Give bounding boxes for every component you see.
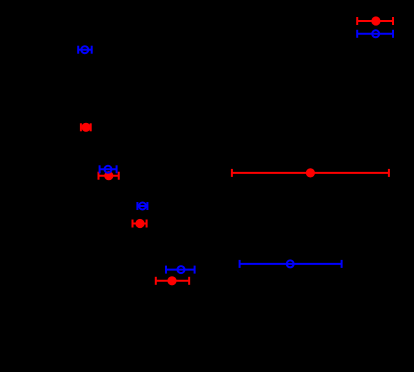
data: blue open circle top-left xyxy=(78,46,92,54)
data: red long errorbar xyxy=(232,169,389,177)
legend red entry xyxy=(357,17,393,25)
data: red filled cluster C xyxy=(156,277,189,285)
data: red filled cluster B xyxy=(133,220,147,228)
data: blue long errorbar xyxy=(240,260,342,268)
data: blue open circle cluster C xyxy=(166,266,195,274)
data: red filled small xyxy=(81,123,91,131)
legend blue entry xyxy=(357,30,393,38)
data: blue open circle cluster A xyxy=(100,165,117,173)
data: blue open circle cluster B xyxy=(137,202,147,210)
data: red filled cluster A xyxy=(99,172,119,180)
